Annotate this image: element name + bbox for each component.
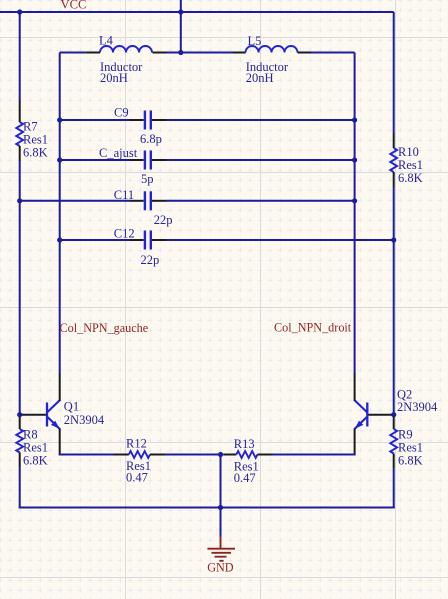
wire Q2 base to right rail <box>391 414 394 416</box>
resistor R7 body <box>16 122 23 146</box>
wire right rail middle <box>393 187 395 415</box>
svg-text:22p: 22p <box>154 213 173 227</box>
wire R12 to R13 <box>165 454 224 456</box>
transistor Q1 collector stroke <box>48 400 61 412</box>
wire C_ajust row left <box>60 159 130 161</box>
svg-text:6.8p: 6.8p <box>140 132 162 146</box>
svg-text:2N3904: 2N3904 <box>64 413 105 427</box>
wire C11 row right <box>166 200 355 202</box>
inductor L5 left pin <box>233 52 246 54</box>
wire left rail lower <box>19 467 21 509</box>
capacitor C9 plates <box>145 111 151 130</box>
capacitor C9 left pin <box>130 119 144 121</box>
wire C12 row right <box>166 239 394 241</box>
svg-text:L5: L5 <box>248 34 262 48</box>
junction dot emitter-gnd <box>218 452 223 457</box>
svg-text:R9: R9 <box>398 428 413 442</box>
capacitor C12 right pin <box>152 239 166 241</box>
junction dot C12 right <box>391 237 396 242</box>
transistor Q2 collector stroke <box>354 400 367 412</box>
capacitor C12 plates <box>145 231 151 250</box>
wire Q1 emitter to R12 <box>59 454 114 456</box>
transistor Q1 base bar <box>46 403 48 427</box>
capacitor C9 right pin <box>152 119 166 121</box>
transistor Q2 emitter pin <box>354 429 356 455</box>
svg-text:R12: R12 <box>126 437 147 451</box>
junction dot Q2 base <box>391 412 396 417</box>
svg-text:6.8K: 6.8K <box>398 171 423 185</box>
transistor Q1 emitter stroke <box>48 417 61 429</box>
junction dot C11 right <box>352 198 357 203</box>
wire L4 left lead <box>60 52 87 54</box>
resistor R13 right pin <box>258 454 273 456</box>
svg-text:R7: R7 <box>23 119 38 133</box>
inductor L4 left pin <box>87 52 101 54</box>
capacitor C_ajust left pin <box>130 159 144 161</box>
capacitor C12 left pin <box>130 239 144 241</box>
resistor R7 bottom pin <box>19 146 21 161</box>
wire Col_NPN_droit rail <box>354 53 356 375</box>
wire Q1 base to left rail <box>20 414 23 416</box>
svg-text:6.8K: 6.8K <box>23 454 48 468</box>
wire right rail upper <box>393 12 395 133</box>
wire C9 row left <box>60 119 130 121</box>
svg-text:R13: R13 <box>234 437 255 451</box>
resistor R9 top pin <box>393 415 395 429</box>
resistor R13 left pin <box>224 454 237 456</box>
svg-text:C9: C9 <box>114 105 129 119</box>
svg-text:R10: R10 <box>398 145 419 159</box>
resistor R8 top pin <box>19 415 21 429</box>
svg-text:C12: C12 <box>114 227 135 241</box>
svg-text:C11: C11 <box>114 188 134 202</box>
junction dot C11 left <box>17 198 22 203</box>
junction dot C_ajust left <box>57 157 62 162</box>
wire bottom rail <box>19 507 395 509</box>
svg-text:Q1: Q1 <box>64 399 79 413</box>
svg-text:Col_NPN_gauche: Col_NPN_gauche <box>60 321 149 335</box>
wire between L4 and L5 <box>167 52 234 54</box>
wire C12 row left <box>60 239 130 241</box>
resistor R9 bottom pin <box>393 454 395 469</box>
wire Col_NPN_gauche rail <box>59 53 61 375</box>
svg-text:L4: L4 <box>99 33 114 47</box>
transistor Q1 emitter arrow <box>51 421 60 429</box>
wire C_ajust row right <box>166 159 355 161</box>
svg-text:20nH: 20nH <box>246 71 274 85</box>
wire C11 row left <box>20 200 130 202</box>
svg-text:Res1: Res1 <box>23 132 48 146</box>
resistor R13 body <box>236 451 257 458</box>
junction dot C9 right <box>352 117 357 122</box>
resistor R12 left pin <box>114 454 129 456</box>
ground symbol <box>207 537 235 561</box>
wire C9 row right <box>166 119 355 121</box>
junction dot at L4-L5 node <box>178 50 183 55</box>
svg-text:Res1: Res1 <box>398 441 423 455</box>
wire L5 right lead <box>311 52 355 54</box>
resistor R10 bottom pin <box>393 172 395 187</box>
svg-text:Col_NPN_droit: Col_NPN_droit <box>274 321 352 335</box>
wire gnd drop lower <box>220 508 222 537</box>
transistor Q2 emitter stroke <box>354 417 367 429</box>
junction dot Q1 base <box>17 412 22 417</box>
svg-text:C_ajust: C_ajust <box>99 146 138 160</box>
svg-text:22p: 22p <box>141 253 160 267</box>
svg-text:2N3904: 2N3904 <box>397 400 438 414</box>
inductor L4 right pin <box>153 52 167 54</box>
transistor Q2 base pin <box>368 414 392 416</box>
inductor L5 right pin <box>298 52 312 54</box>
junction dot C_ajust right <box>352 157 357 162</box>
resistor R7 top pin <box>19 101 21 122</box>
capacitor C11 plates <box>145 191 151 210</box>
svg-text:R8: R8 <box>23 428 38 442</box>
capacitor C_ajust plates <box>145 151 151 170</box>
junction dot at VCC/left rail <box>17 9 22 14</box>
resistor R10 top pin <box>393 133 395 148</box>
capacitor C11 left pin <box>130 200 144 202</box>
capacitor C_ajust right pin <box>152 159 166 161</box>
wire R13 to Q2 emitter <box>273 454 356 456</box>
transistor Q2 base bar <box>366 403 368 427</box>
resistor R10 body <box>390 148 397 172</box>
svg-text:GND: GND <box>207 561 234 575</box>
resistor R8 body <box>16 429 23 453</box>
transistor Q2 collector pin <box>354 374 356 401</box>
resistor R9 body <box>390 429 397 454</box>
wire left rail upper <box>19 12 21 101</box>
junction dot at VCC/center stub <box>178 9 183 14</box>
svg-text:Res1: Res1 <box>23 441 48 455</box>
transistor Q1 base pin <box>22 414 46 416</box>
transistor Q1 collector pin <box>59 374 61 401</box>
resistor R8 bottom pin <box>19 453 21 468</box>
inductor L4 body <box>100 46 152 53</box>
wire VCC top stub <box>180 0 182 53</box>
svg-text:20nH: 20nH <box>100 71 128 85</box>
transistor Q2 emitter arrow <box>355 421 364 429</box>
svg-text:0.47: 0.47 <box>234 471 256 485</box>
svg-text:0.47: 0.47 <box>126 470 148 484</box>
wire left rail middle <box>19 161 21 415</box>
resistor R12 body <box>129 451 150 458</box>
resistor R12 right pin <box>150 454 165 456</box>
junction dot bottom rail <box>218 505 223 510</box>
svg-text:6.8K: 6.8K <box>23 145 48 159</box>
inductor L5 body <box>246 46 298 53</box>
svg-text:VCC: VCC <box>61 0 87 12</box>
wire gnd drop upper <box>220 455 222 508</box>
junction dot C9 left <box>57 117 62 122</box>
svg-text:6.8K: 6.8K <box>398 454 423 468</box>
svg-text:Res1: Res1 <box>398 158 423 172</box>
transistor Q1 emitter pin <box>59 429 61 455</box>
junction dot C12 left <box>57 237 62 242</box>
svg-text:5p: 5p <box>141 172 154 186</box>
capacitor C11 right pin <box>152 200 166 202</box>
wire VCC rail <box>0 11 394 13</box>
wire right rail lower <box>393 469 395 509</box>
